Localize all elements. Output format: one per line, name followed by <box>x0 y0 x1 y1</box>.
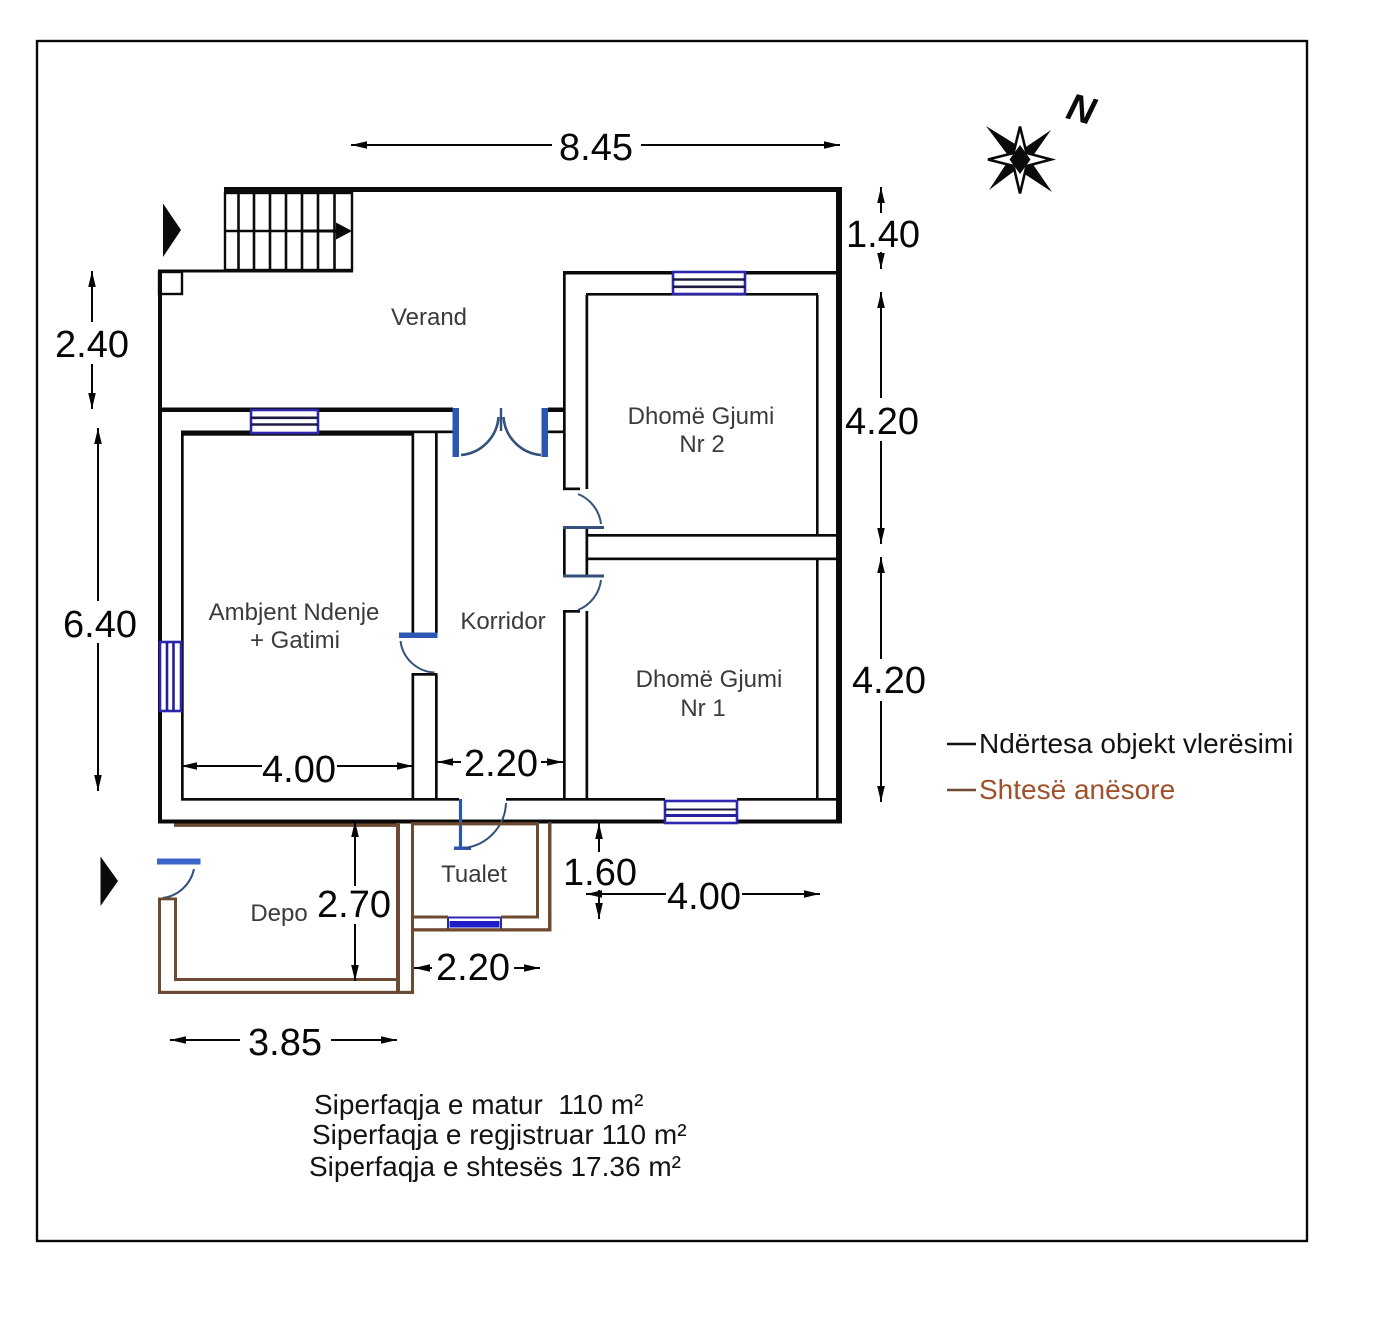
annex tualet inner bottom segments <box>411 916 448 919</box>
annex tualet top line <box>411 822 539 825</box>
depo door swing arc <box>163 869 194 898</box>
annex wall depo-tualet divider <box>396 823 400 993</box>
dimension 8.45 top <box>351 144 840 146</box>
corridor left wall door cap <box>412 673 438 676</box>
verand band top line right stub <box>548 408 565 413</box>
svg-text:Siperfaqja e shtesës 17.36 m²: Siperfaqja e shtesës 17.36 m² <box>309 1151 681 1182</box>
Nr2 top band inner line <box>586 293 818 296</box>
Nr1 door panel <box>563 575 604 578</box>
svg-text:Verand: Verand <box>391 304 467 331</box>
svg-text:Korridor: Korridor <box>460 608 545 635</box>
wall top outer <box>224 187 842 192</box>
svg-text:4.20: 4.20 <box>852 660 926 702</box>
svg-text:Ambjent Ndenje: Ambjent Ndenje <box>209 599 380 626</box>
Nr1 room inner right line <box>816 559 819 800</box>
dimension 4.20 upper right <box>880 292 882 544</box>
svg-text:Depo: Depo <box>250 900 307 927</box>
legend line black <box>947 743 976 746</box>
corridor right wall west face segment 3 <box>563 611 566 800</box>
Nr1 door bottom cap <box>563 610 580 613</box>
window W5 tualet with solid bar <box>448 918 501 931</box>
Nr2 door top cap <box>563 488 580 491</box>
dimension 3.85 <box>170 1039 397 1041</box>
stairs direction arrow <box>302 230 337 233</box>
Ambjent room inner top line <box>181 433 413 436</box>
verand double door left jamb <box>453 408 460 457</box>
stairs mid line <box>225 230 318 232</box>
svg-text:Shtesë anësore: Shtesë anësore <box>979 774 1175 805</box>
verand double door center post <box>500 408 502 431</box>
annex tualet outer right line <box>548 822 552 931</box>
svg-text:Tualet: Tualet <box>441 861 507 888</box>
verand band top line left part <box>158 408 453 413</box>
depo door panel <box>157 859 201 865</box>
svg-text:Dhomë Gjumi: Dhomë Gjumi <box>628 403 775 430</box>
stairs treads <box>239 192 335 270</box>
svg-text:2.40: 2.40 <box>55 324 129 366</box>
svg-text:2.20: 2.20 <box>464 743 538 785</box>
corridor left wall east face lower <box>435 675 438 800</box>
Ambjent room inner left wall line <box>181 433 184 798</box>
svg-text:2.20: 2.20 <box>436 947 510 989</box>
svg-text:1.40: 1.40 <box>846 214 920 256</box>
dimension 2.20 corridor <box>437 761 563 763</box>
svg-text:Siperfaqja e matur 110 m²: Siperfaqja e matur 110 m² <box>314 1089 643 1120</box>
annex depo outer left line <box>158 898 161 995</box>
corridor right wall west face segment 2 <box>563 528 566 577</box>
legend line brown <box>947 789 976 792</box>
svg-text:Nr 2: Nr 2 <box>679 431 724 458</box>
corridor left wall west face lower <box>412 675 415 800</box>
window W4 left of Ambjent <box>160 642 181 711</box>
wall column notch top-left <box>159 272 182 294</box>
verand double door right jamb <box>542 408 549 457</box>
annex depo inner left line <box>174 899 177 981</box>
stairs outline <box>225 193 352 270</box>
dimension 1.40 right top <box>880 187 882 269</box>
dimension 2.40 left <box>91 271 93 409</box>
svg-text:Siperfaqja e regjistruar 110 m: Siperfaqja e regjistruar 110 m² <box>312 1119 687 1150</box>
tualet door panel <box>459 799 462 848</box>
Nr2 top band outer line <box>563 271 836 275</box>
verand band inner line right stub <box>548 431 565 434</box>
corridor right wall west face segment 1 <box>563 271 566 489</box>
annex tualet outer bottom line <box>411 928 552 931</box>
svg-text:Ndërtesa objekt vlerësimi: Ndërtesa objekt vlerësimi <box>979 728 1293 759</box>
dimension 4.00 Ambjent <box>181 765 413 767</box>
svg-text:Nr 1: Nr 1 <box>680 695 725 722</box>
wall bottom outer left segment <box>158 820 665 824</box>
annex depo inner bottom line <box>174 978 398 981</box>
svg-text:1.60: 1.60 <box>563 852 637 894</box>
svg-text:3.85: 3.85 <box>248 1022 322 1064</box>
Nr1 door swing arc <box>578 580 601 610</box>
svg-text:+ Gatimi: + Gatimi <box>250 627 340 654</box>
svg-text:4.20: 4.20 <box>845 401 919 443</box>
annex depo door cap <box>158 898 177 901</box>
svg-text:4.00: 4.00 <box>262 749 336 791</box>
svg-text:2.70: 2.70 <box>317 884 391 926</box>
svg-text:Dhomë Gjumi: Dhomë Gjumi <box>636 666 783 693</box>
entrance triangle bottom-left <box>101 857 119 907</box>
svg-text:4.00: 4.00 <box>667 876 741 918</box>
corridor right wall east face segment 2 <box>586 528 589 577</box>
window W1 top of Ambjent <box>251 410 318 433</box>
Nr2 door swing arc <box>578 494 601 524</box>
verand band inner line left part <box>181 431 453 434</box>
dimension 2.70 depo <box>354 821 356 981</box>
window W2 top of Nr2 <box>673 272 745 294</box>
dimension 4.00 bottom <box>586 893 820 895</box>
compass rose cardinal star (white) <box>988 127 1051 194</box>
corridor right wall east face segment 1 <box>586 295 589 489</box>
verand double door right leaf arc <box>504 417 542 455</box>
annex depo inner top line <box>174 824 398 827</box>
Nr2 room inner right line <box>816 295 819 535</box>
dimension 2.20 annex bottom <box>414 967 540 969</box>
corridor right wall east face segment 3 <box>586 611 589 800</box>
wall right outer <box>836 187 842 823</box>
wall bottom inner face segments <box>181 798 459 801</box>
dimension 4.20 lower right <box>880 557 882 802</box>
band between Nr2 and Nr1 lower line <box>586 558 836 561</box>
wall bottom outer right segment <box>737 820 842 824</box>
band between Nr2 and Nr1 upper line <box>586 534 836 537</box>
tualet door bottom tick <box>454 847 471 851</box>
Nr2 door panel <box>563 526 604 529</box>
entrance triangle top-left <box>163 204 181 258</box>
svg-text:6.40: 6.40 <box>63 604 137 646</box>
wall left outer <box>158 271 162 823</box>
compass rose diagonal star (black) <box>986 126 1052 192</box>
Ambjent door swing arc <box>401 641 435 673</box>
corridor left wall east face upper <box>435 433 438 633</box>
compass rose center core <box>1010 145 1031 174</box>
annex tualet left wall <box>411 823 414 994</box>
window W3 bottom of Nr1 <box>665 801 737 823</box>
dimension 6.40 left <box>97 428 99 791</box>
Ambjent door panel <box>399 633 438 639</box>
annex depo outer bottom line <box>158 991 414 994</box>
tualet door swing arc <box>464 803 506 848</box>
verand double door left leaf arc <box>461 417 499 455</box>
corridor left wall west face upper <box>412 433 415 633</box>
svg-text:8.45: 8.45 <box>559 127 633 169</box>
annex tualet inner right line <box>536 822 539 918</box>
dimension 1.60 <box>598 823 600 919</box>
wall below stairs <box>158 270 353 273</box>
